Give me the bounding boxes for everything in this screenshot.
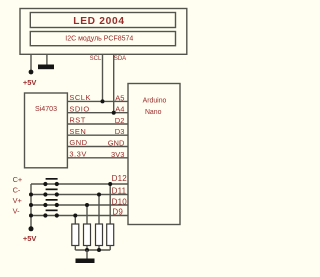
junction bus R2: [85, 248, 89, 252]
junction rail wire V+: [29, 203, 33, 207]
wire SCLK to A5: [67, 100, 128, 102]
wire SEN to D3: [67, 134, 128, 136]
+5V rail: [30, 184, 32, 229]
svg-text:SDA: SDA: [114, 56, 126, 62]
svg-text:C-: C-: [13, 186, 21, 195]
node +5V terminal (bottom): [29, 226, 34, 231]
svg-text:SDIO: SDIO: [69, 104, 89, 113]
LCD display module outer box: [20, 9, 187, 55]
svg-text:D11: D11: [112, 187, 127, 196]
svg-text:LED 2004: LED 2004: [73, 16, 124, 27]
junction SCL-SCLK: [101, 99, 105, 103]
svg-text:GND: GND: [108, 139, 125, 148]
junction R1 wire V-: [73, 214, 77, 218]
node +5V terminal: [29, 70, 34, 75]
resistor R3: [96, 195, 103, 251]
junction rail wire V-: [29, 214, 33, 218]
wire V+ to D10: [31, 204, 128, 206]
svg-text:A4: A4: [115, 105, 124, 114]
svg-text:V-: V-: [13, 207, 21, 216]
svg-text:D2: D2: [115, 116, 125, 125]
svg-text:+5V: +5V: [23, 234, 37, 243]
svg-text:RST: RST: [69, 116, 86, 125]
wire C- to D11: [31, 194, 128, 196]
Arduino Nano box: [128, 84, 180, 225]
svg-text:D10: D10: [112, 198, 128, 207]
svg-text:A5: A5: [115, 93, 124, 102]
junction SDA-SDIO: [112, 111, 116, 115]
pushbutton S3: [43, 199, 59, 207]
svg-text:D12: D12: [112, 174, 128, 183]
wire LCD +5V: [30, 54, 32, 70]
wire 3.3V to 3V3: [67, 157, 128, 159]
Si4703 tuner box: [25, 93, 68, 168]
svg-text:SEN: SEN: [69, 127, 86, 136]
pushbutton S2: [43, 189, 59, 197]
resistor R1: [72, 216, 79, 251]
resistor R4: [107, 184, 114, 250]
wire RST to D2: [67, 123, 128, 125]
junction R3 wire C-: [97, 193, 101, 197]
junction rail wire C-: [29, 193, 33, 197]
svg-text:3.3V: 3.3V: [69, 150, 86, 159]
svg-text:SCL: SCL: [90, 56, 102, 62]
svg-text:+5V: +5V: [23, 78, 37, 87]
wire C+ to D12: [31, 183, 128, 185]
wire SCL: [102, 54, 104, 101]
wire GND to GND: [67, 146, 128, 148]
pushbutton S4: [43, 210, 59, 218]
svg-text:V+: V+: [13, 196, 22, 205]
junction R4 wire C+: [108, 182, 112, 186]
ground bus: [75, 249, 110, 251]
wire SDIO to A4: [67, 112, 128, 114]
wire V- to D9: [31, 215, 128, 217]
wire to ground (bottom): [86, 250, 88, 259]
I2C module label box: [30, 32, 175, 46]
svg-text:3V3: 3V3: [111, 150, 124, 159]
svg-text:Si4703: Si4703: [35, 105, 57, 113]
LED 2004 label box: [30, 13, 175, 28]
svg-text:SCLK: SCLK: [69, 93, 91, 102]
wire LCD ground: [46, 54, 48, 64]
junction bus R3: [97, 248, 101, 252]
ground symbol (bottom): [76, 259, 95, 264]
pushbutton S1: [43, 178, 59, 186]
svg-text:Arduino: Arduino: [143, 97, 167, 104]
wire SDA: [113, 54, 115, 112]
ground symbol (top): [38, 65, 54, 70]
svg-text:Nano: Nano: [145, 109, 162, 116]
junction R2 wire V+: [85, 203, 89, 207]
svg-text:D3: D3: [115, 127, 125, 136]
svg-text:D9: D9: [112, 208, 123, 217]
svg-text:I2C модуль PCF8574: I2C модуль PCF8574: [65, 36, 133, 43]
svg-text:GND: GND: [69, 138, 87, 147]
resistor R2: [84, 205, 91, 250]
svg-text:C+: C+: [13, 175, 23, 184]
